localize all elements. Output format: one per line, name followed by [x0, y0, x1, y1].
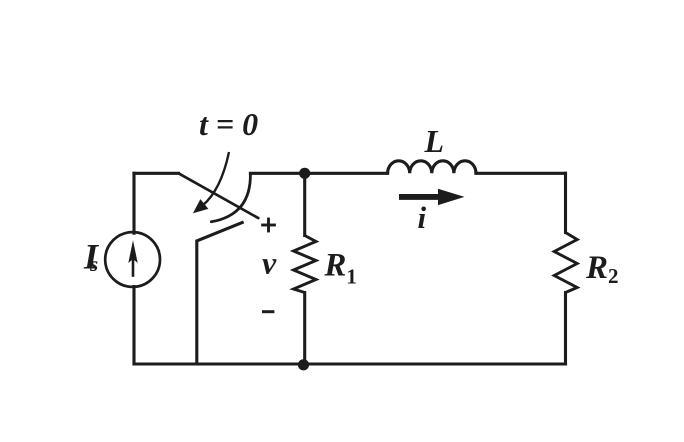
switch contact arc: [211, 174, 250, 222]
switch motion arrowhead: [194, 200, 208, 213]
node dot bottom (R1 / bottom rail junction): [298, 359, 309, 370]
current source Is circle: [105, 232, 160, 287]
wire top-left horizontal: [134, 172, 179, 175]
wire left vertical lower: [132, 287, 135, 365]
wire switch lower contact: [197, 223, 242, 365]
svg-text:R1: R1: [323, 248, 357, 289]
label + (v polarity): [261, 218, 276, 233]
wire right vertical upper: [564, 173, 567, 232]
switch SW blade: [179, 173, 259, 218]
current i arrowhead: [438, 189, 465, 205]
current source arrow stem: [132, 258, 135, 277]
wire bottom rail: [134, 362, 566, 365]
resistor R2 zigzag: [554, 233, 577, 293]
current i arrow shaft: [399, 194, 441, 200]
svg-text:i: i: [418, 200, 427, 235]
switch motion arrow arc: [203, 152, 230, 206]
wire R1 branch upper: [303, 173, 306, 235]
wire R1 branch lower: [303, 293, 306, 365]
inductor L coil: [388, 161, 476, 174]
svg-text:t = 0: t = 0: [199, 106, 258, 142]
svg-text:R2: R2: [585, 250, 619, 288]
svg-text:L: L: [424, 123, 445, 159]
label - (v polarity): [262, 310, 274, 313]
svg-text:s: s: [89, 252, 98, 276]
current source arrowhead: [128, 240, 137, 263]
node dot top (R1 / top rail junction): [299, 168, 310, 179]
wire inductor to top-right corner: [476, 172, 566, 175]
wire top-right horizontal (arc contact to inductor): [250, 172, 387, 175]
svg-text:v: v: [262, 245, 277, 281]
wire right vertical lower: [564, 293, 567, 365]
wire left vertical upper: [132, 173, 135, 233]
resistor R1 zigzag: [294, 236, 317, 293]
